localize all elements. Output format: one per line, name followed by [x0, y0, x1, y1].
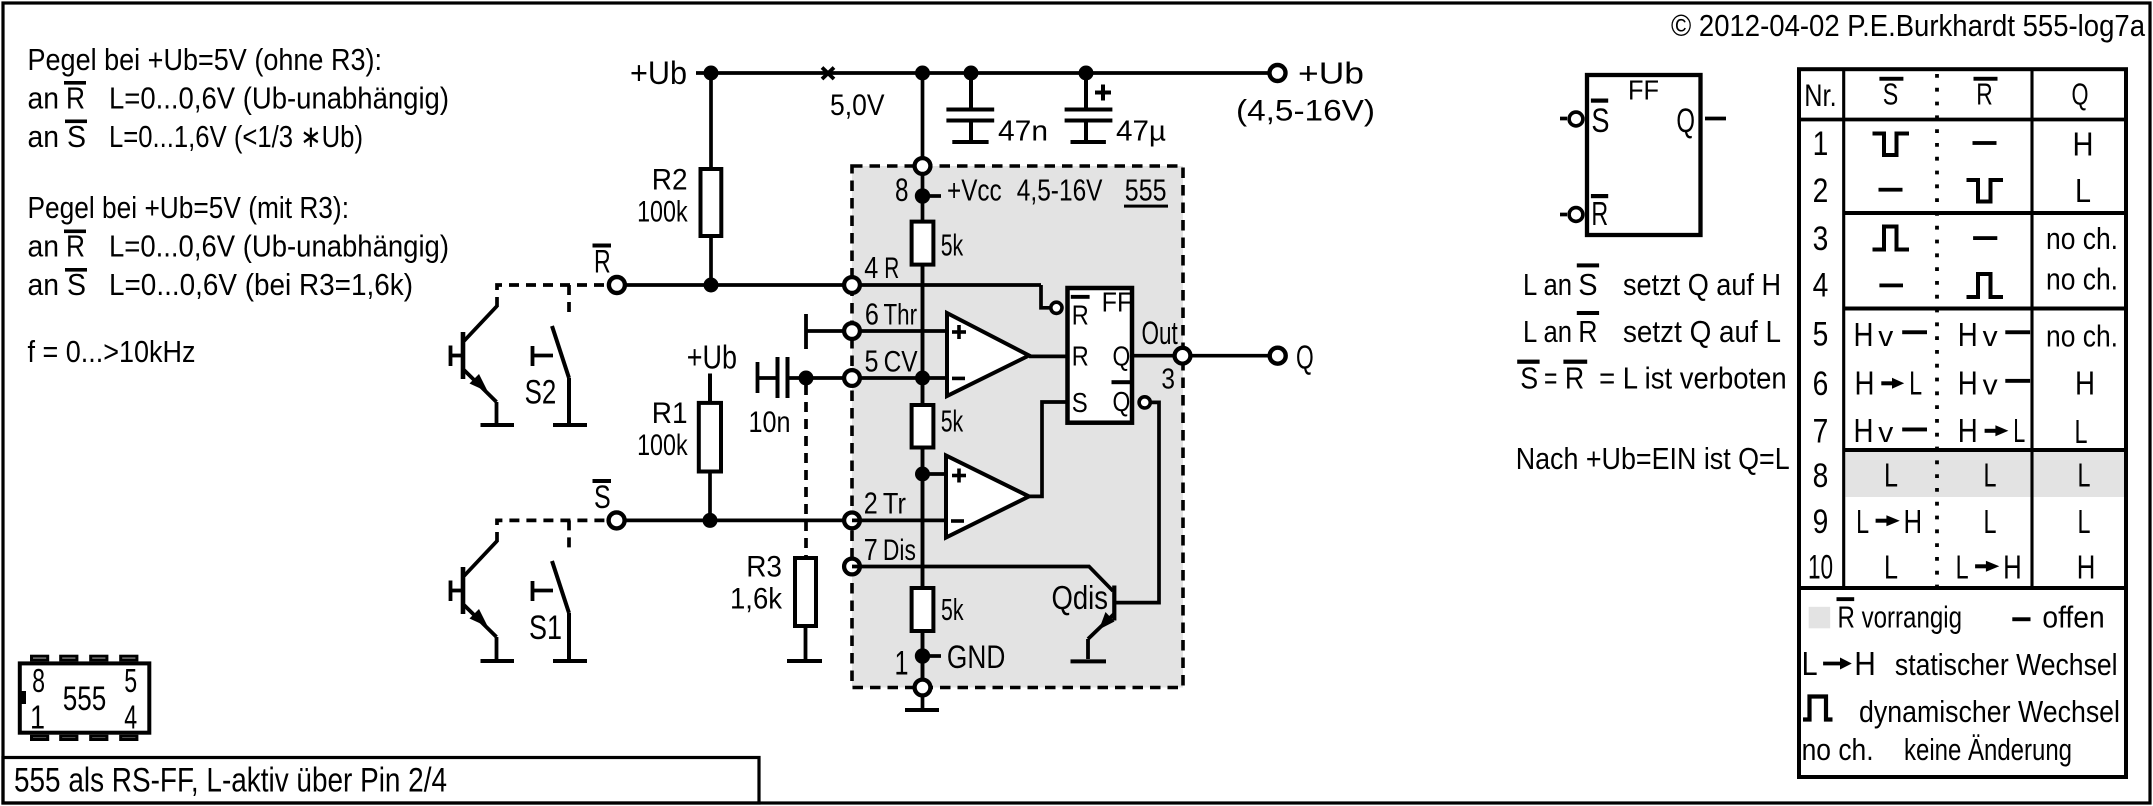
- svg-text:CV: CV: [884, 346, 918, 379]
- note text block 1: [28, 42, 450, 154]
- svg-text:R: R: [1072, 300, 1089, 331]
- svg-text:5: 5: [124, 662, 137, 699]
- svg-text:5k: 5k: [941, 404, 964, 439]
- svg-text:H: H: [1854, 645, 1876, 682]
- text L an R: [1523, 314, 1781, 349]
- svg-text:an: an: [28, 119, 60, 154]
- svg-text:S2: S2: [525, 374, 557, 412]
- bubble S input: [1569, 112, 1583, 126]
- svg-text:5k: 5k: [941, 592, 964, 627]
- node rail C47u: [1079, 66, 1094, 81]
- wire Tr: [852, 519, 946, 523]
- svg-text:S: S: [594, 479, 611, 515]
- svg-text:L: L: [2075, 172, 2091, 209]
- svg-text:+Ub: +Ub: [630, 55, 687, 91]
- svg-text:1,6k: 1,6k: [730, 583, 783, 616]
- legend statischer Wechsel: [1802, 645, 1876, 682]
- svg-text:L: L: [2013, 412, 2025, 449]
- svg-text:L=0...1,6V (<1/3 ∗Ub): L=0...1,6V (<1/3 ∗Ub): [109, 119, 363, 154]
- svg-text:R vorrangig: R vorrangig: [1838, 600, 1963, 635]
- pin circle 1 bottom: [915, 680, 931, 696]
- svg-text:S: S: [67, 119, 86, 154]
- svg-text:2: 2: [1813, 172, 1829, 210]
- svg-text:10: 10: [1808, 548, 1833, 586]
- capacitor C2 47u: [1065, 73, 1113, 140]
- svg-text:L=0...0,6V (bei R3=1,6k): L=0...0,6V (bei R3=1,6k): [109, 267, 413, 302]
- svg-text:Q: Q: [1676, 102, 1695, 140]
- node rail pin8: [915, 66, 930, 81]
- resistor 5k bottom: [912, 588, 934, 631]
- svg-text:Nr.: Nr.: [1804, 77, 1836, 113]
- wire dashed CV to R3: [804, 385, 808, 556]
- flipflop FF internal box: [1068, 288, 1133, 423]
- pin circle 6 Thr: [844, 323, 860, 339]
- resistor 5k top: [912, 222, 934, 265]
- capacitor C1 47n: [946, 73, 994, 140]
- overbar R line5: [64, 230, 86, 234]
- svg-text:555: 555: [1125, 173, 1167, 208]
- svg-text:L: L: [2075, 413, 2088, 450]
- svg-text:offen: offen: [2042, 600, 2104, 635]
- wire Thr: [806, 329, 947, 333]
- svg-text:Q: Q: [2072, 77, 2089, 112]
- label 6 Thr: [865, 297, 917, 332]
- wire bottom ground: [921, 696, 925, 710]
- row7 R HarrowL: [1958, 412, 2026, 449]
- label 7 Dis: [864, 532, 916, 567]
- svg-text:Dis: Dis: [883, 534, 916, 567]
- svg-text:555: 555: [63, 680, 107, 718]
- svg-text:Nach +Ub=EIN ist Q=L: Nach +Ub=EIN ist Q=L: [1516, 441, 1790, 476]
- legend gray square: [1809, 607, 1831, 629]
- ground S2: [553, 423, 587, 427]
- tick pin8: [929, 194, 941, 198]
- overbar S line3: [65, 120, 87, 124]
- svg-text:no ch.: no ch.: [2046, 221, 2118, 256]
- wire chain 1: [921, 265, 925, 405]
- node CV: [799, 371, 814, 386]
- arrow emitter T2: [470, 374, 489, 392]
- node Rbar R2: [704, 278, 719, 293]
- wire U2 + input: [923, 472, 947, 476]
- svg-text:+Ub: +Ub: [687, 339, 737, 376]
- pin circle 2 Tr: [844, 513, 860, 529]
- svg-text:L an: L an: [1523, 314, 1572, 349]
- svg-text:H: H: [1958, 412, 1978, 449]
- svg-text:L=0...0,6V (Ub-unabhängig): L=0...0,6V (Ub-unabhängig): [109, 81, 449, 116]
- svg-text:© 2012-04-02 P.E.Burkhardt 555: © 2012-04-02 P.E.Burkhardt 555-log7a: [1671, 8, 2146, 43]
- svg-text:4: 4: [124, 699, 137, 736]
- flipflop symbol box: [1587, 75, 1701, 235]
- wire pin8 from rail: [921, 73, 925, 160]
- tick GND: [929, 654, 941, 658]
- svg-text:L: L: [1884, 456, 1898, 493]
- svg-text:Thr: Thr: [884, 299, 918, 332]
- svg-text:L: L: [1984, 456, 1997, 493]
- node pin8: [915, 188, 930, 203]
- ground T1: [481, 659, 515, 663]
- ground C1: [952, 140, 988, 144]
- label 5 CV: [865, 344, 918, 379]
- arrow emitter T1: [470, 609, 489, 627]
- transistor Qdis: [1088, 586, 1114, 660]
- wire U1 out: [1029, 355, 1067, 359]
- overbar Rbar terminal: [593, 244, 612, 248]
- svg-text:1: 1: [895, 645, 909, 683]
- svg-text:1: 1: [30, 699, 45, 736]
- svg-text:H: H: [1958, 365, 1978, 402]
- row2 S dash: [1879, 188, 1903, 192]
- svg-text:no ch.: no ch.: [1802, 732, 1874, 767]
- pin circle 7 Dis: [844, 559, 860, 575]
- resistor R1: [708, 374, 712, 403]
- wire dashed T1 collector to Sbar: [497, 520, 609, 542]
- svg-text:R: R: [66, 229, 85, 264]
- row5 R HvDash: [1958, 316, 2030, 353]
- svg-text:v: v: [1983, 321, 1999, 353]
- svg-text:L: L: [1856, 503, 1869, 540]
- svg-text:8: 8: [32, 662, 45, 699]
- svg-text:+Vcc: +Vcc: [947, 173, 1002, 208]
- svg-text:Q: Q: [1113, 386, 1131, 417]
- polarity plus C2: [1095, 85, 1111, 101]
- svg-text:H: H: [2075, 364, 2095, 401]
- svg-text:v: v: [1878, 321, 1894, 353]
- svg-text:1: 1: [1813, 125, 1829, 163]
- plus U2: [952, 469, 966, 483]
- svg-text:S: S: [1072, 387, 1088, 418]
- svg-text:5,0V: 5,0V: [830, 89, 885, 122]
- 555 dashed box: [852, 166, 1183, 688]
- overbar S line6: [65, 268, 87, 272]
- svg-text:FF: FF: [1102, 287, 1133, 318]
- node chain CV: [915, 371, 930, 386]
- svg-text:47µ: 47µ: [1116, 116, 1166, 148]
- label 2 Tr: [864, 486, 906, 521]
- svg-text:L=0...0,6V (Ub-unabhängig): L=0...0,6V (Ub-unabhängig): [109, 229, 449, 264]
- resistor 5k mid: [912, 405, 934, 448]
- stub R input: [1560, 213, 1567, 217]
- truth table gray row 8: [1846, 452, 2125, 497]
- minus U2: [951, 519, 964, 523]
- svg-text:R: R: [1565, 361, 1584, 396]
- svg-text:L: L: [2078, 503, 2091, 540]
- wire Q out: [1134, 354, 1270, 358]
- terminal Q: [1270, 348, 1286, 364]
- row1 R dash: [1973, 141, 1997, 145]
- arrow emitter Qdis: [1099, 612, 1115, 630]
- transistor T2 base terminal: [449, 346, 453, 367]
- svg-text:GND: GND: [947, 639, 1005, 675]
- text verboten: [1520, 361, 1787, 396]
- svg-text:H: H: [1855, 365, 1875, 402]
- comparator U1: [947, 313, 1029, 396]
- terminal bar Thr: [804, 314, 808, 349]
- row2 R pulse down: [1967, 180, 2004, 202]
- truth table dotted separator: [1935, 74, 1939, 588]
- overbar Sbar terminal: [593, 479, 612, 483]
- wire dashed T2 collector to Rbar: [497, 285, 609, 307]
- svg-text:7: 7: [864, 532, 878, 567]
- svg-text:8: 8: [1813, 457, 1829, 495]
- svg-text:100k: 100k: [637, 195, 688, 228]
- comparator U2: [946, 456, 1029, 538]
- row4 R pulse up: [1967, 274, 2004, 297]
- node rail R2: [704, 66, 719, 81]
- ground C2: [1071, 140, 1106, 144]
- wire Sbar to 555: [625, 519, 852, 523]
- svg-text:L: L: [2078, 456, 2091, 493]
- wire R input corner: [1041, 285, 1051, 308]
- svg-text:keine Änderung: keine Änderung: [1904, 732, 2072, 767]
- row6 S HarrowL: [1855, 365, 1923, 402]
- svg-text:R3: R3: [746, 551, 782, 584]
- svg-text:S1: S1: [529, 609, 562, 647]
- svg-text:H: H: [2073, 126, 2094, 163]
- transistor T2: [451, 306, 498, 423]
- pin circle 5 CV: [844, 370, 860, 386]
- wire chain 3: [921, 631, 925, 680]
- svg-text:6: 6: [865, 297, 879, 332]
- row6 R HvDash: [1958, 365, 2030, 402]
- svg-text:Out: Out: [1142, 315, 1178, 351]
- bubble Qbar FF: [1139, 397, 1150, 408]
- ground T2: [481, 423, 515, 427]
- title box: [3, 758, 759, 804]
- svg-text:Tr: Tr: [883, 488, 906, 521]
- label 4 R: [864, 250, 899, 285]
- legend pulse dynamischer Wechsel: [1803, 697, 1833, 720]
- svg-text:5: 5: [865, 344, 879, 379]
- legend dash offen: [2012, 617, 2030, 621]
- svg-text:R: R: [594, 243, 611, 279]
- svg-text:10n: 10n: [749, 406, 791, 439]
- svg-text:H: H: [1904, 503, 1923, 540]
- transistor T1 base terminal: [449, 581, 453, 602]
- svg-text:3: 3: [1813, 220, 1829, 258]
- DIP pins top: [32, 656, 137, 660]
- cross mark measure point: [822, 68, 834, 80]
- svg-text:R1: R1: [652, 397, 688, 430]
- svg-text:H: H: [1958, 316, 1978, 353]
- ground 555: [905, 708, 939, 712]
- bubble Rbar FF: [1051, 302, 1062, 313]
- svg-text:6: 6: [1813, 365, 1829, 403]
- svg-text:S: S: [67, 267, 86, 302]
- terminal +Ub right: [1270, 65, 1286, 81]
- wire +Ub rail: [696, 71, 1270, 75]
- terminal Sbar: [609, 512, 625, 528]
- svg-text:an: an: [28, 229, 60, 264]
- minus U1: [952, 377, 965, 381]
- svg-text:an: an: [28, 267, 60, 302]
- svg-text:8: 8: [895, 172, 909, 208]
- svg-text:v: v: [1983, 370, 1999, 402]
- wire chain 2: [921, 448, 925, 589]
- wire Rbar to 555: [625, 283, 1041, 287]
- pin circle 4 R: [844, 277, 860, 293]
- row3 S pulse up: [1873, 227, 1910, 250]
- pin circle 8 top: [915, 158, 931, 174]
- row5 S HvDash: [1854, 316, 1928, 353]
- svg-text:v: v: [1878, 417, 1894, 449]
- switch S2: [533, 285, 570, 423]
- ground S1: [553, 659, 587, 663]
- svg-text:L: L: [1984, 503, 1997, 540]
- wire Dis: [852, 567, 1113, 592]
- row7 S HvDash: [1854, 412, 1928, 449]
- plus U1: [952, 325, 966, 339]
- node rail C47n: [964, 66, 979, 81]
- stub Q output: [1705, 117, 1726, 121]
- svg-text:S: S: [1578, 267, 1597, 302]
- node Sbar R1: [703, 513, 718, 528]
- svg-text:2: 2: [864, 486, 878, 521]
- svg-text:H: H: [2077, 548, 2096, 585]
- svg-text:3: 3: [1161, 363, 1175, 395]
- text L an S: [1523, 267, 1781, 302]
- svg-text:H: H: [1854, 412, 1874, 449]
- svg-text:Q: Q: [1113, 340, 1131, 371]
- svg-text:9: 9: [1813, 503, 1829, 541]
- note text block 2: [28, 190, 450, 302]
- svg-text:R: R: [884, 252, 899, 285]
- svg-text:Q: Q: [1296, 339, 1314, 376]
- svg-text:f = 0...>10kHz: f = 0...>10kHz: [28, 334, 196, 369]
- DIP pins bottom: [32, 736, 137, 739]
- svg-text:(4,5-16V): (4,5-16V): [1236, 95, 1375, 128]
- svg-text:R: R: [1578, 314, 1597, 349]
- svg-text:R: R: [1976, 77, 1993, 112]
- svg-text:555 als RS-FF, L-aktiv über P: 555 als RS-FF, L-aktiv über Pin 2/4: [14, 762, 447, 800]
- svg-text:Qdis: Qdis: [1052, 579, 1109, 616]
- svg-text:statischer Wechsel: statischer Wechsel: [1895, 647, 2118, 682]
- svg-text:H: H: [2003, 548, 2022, 585]
- svg-text:=: =: [1544, 361, 1557, 396]
- wire pin8 inside: [921, 174, 925, 222]
- svg-text:+Ub: +Ub: [1298, 56, 1364, 91]
- resistor R3: [795, 558, 816, 626]
- overbar R line2: [64, 81, 86, 85]
- svg-text:H: H: [1854, 316, 1874, 353]
- resistor R2: [709, 73, 713, 169]
- svg-text:= L ist verboten: = L ist verboten: [1599, 361, 1787, 396]
- svg-text:S: S: [1883, 77, 1899, 112]
- row1 S pulse down: [1873, 134, 1910, 156]
- svg-text:4: 4: [1813, 267, 1829, 305]
- DIP package icon: [20, 663, 150, 732]
- row3 R dash: [1973, 236, 1997, 240]
- svg-text:7: 7: [1813, 413, 1829, 451]
- switch S1: [533, 520, 570, 659]
- svg-text:R: R: [1072, 340, 1089, 371]
- wire U2 out to S: [1029, 402, 1067, 496]
- svg-text:L: L: [1909, 365, 1922, 402]
- svg-text:setzt Q auf H: setzt Q auf H: [1623, 267, 1781, 302]
- svg-text:no ch.: no ch.: [2046, 319, 2118, 354]
- svg-text:dynamischer Wechsel: dynamischer Wechsel: [1859, 694, 2120, 729]
- svg-text:4: 4: [864, 250, 878, 285]
- pin circle 3 out: [1175, 348, 1191, 364]
- row numbers: [1808, 125, 1833, 587]
- svg-text:5k: 5k: [941, 228, 964, 263]
- row4 S dash: [1879, 284, 1903, 288]
- truth table frame: [1799, 69, 2126, 777]
- svg-text:L an: L an: [1523, 267, 1572, 302]
- svg-text:no ch.: no ch.: [2046, 262, 2118, 297]
- svg-text:5: 5: [1813, 316, 1829, 354]
- svg-text:R: R: [66, 81, 85, 116]
- wire Qbar to Qdis: [1116, 402, 1159, 602]
- row10 R LarrowH: [1956, 548, 2022, 585]
- svg-text:R2: R2: [652, 164, 688, 197]
- svg-text:S: S: [1591, 102, 1609, 140]
- svg-text:S: S: [1520, 361, 1538, 396]
- svg-text:L: L: [1884, 548, 1898, 585]
- DIP notch: [19, 691, 26, 704]
- svg-text:R: R: [1591, 195, 1608, 232]
- terminal Rbar: [609, 277, 625, 293]
- svg-text:FF: FF: [1628, 75, 1659, 106]
- transistor T1: [451, 541, 498, 659]
- row9 S LarrowH: [1856, 503, 1922, 540]
- node chain comp2: [915, 467, 930, 482]
- svg-text:setzt Q auf L: setzt Q auf L: [1623, 314, 1781, 349]
- svg-text:L: L: [1956, 548, 1969, 585]
- svg-text:100k: 100k: [637, 429, 688, 462]
- ground R3: [787, 659, 822, 663]
- svg-text:an: an: [28, 81, 60, 116]
- bubble R input: [1569, 208, 1583, 222]
- stub S input: [1560, 117, 1567, 121]
- ground Qdis: [1071, 659, 1107, 663]
- node GND: [915, 648, 930, 663]
- svg-text:4,5-16V: 4,5-16V: [1017, 173, 1103, 208]
- svg-text:L: L: [1802, 645, 1818, 682]
- svg-text:Pegel bei +Ub=5V (mit R3):: Pegel bei +Ub=5V (mit R3):: [28, 190, 350, 225]
- svg-text:Pegel bei +Ub=5V (ohne R3):: Pegel bei +Ub=5V (ohne R3):: [28, 42, 383, 77]
- svg-text:47n: 47n: [998, 116, 1048, 148]
- capacitor C3 10n: [758, 357, 948, 398]
